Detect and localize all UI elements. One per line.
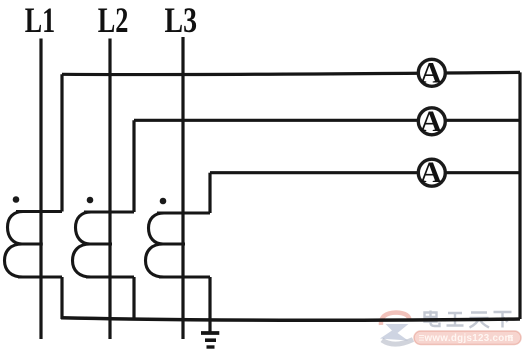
- svg-text:A: A: [420, 156, 442, 189]
- svg-text:A: A: [420, 105, 442, 138]
- svg-text:L2: L2: [98, 0, 129, 40]
- svg-text:www.dgjs123.com: www.dgjs123.com: [423, 333, 513, 344]
- svg-text:A: A: [420, 56, 442, 89]
- svg-text:L3: L3: [165, 0, 198, 40]
- svg-text:L1: L1: [25, 0, 55, 40]
